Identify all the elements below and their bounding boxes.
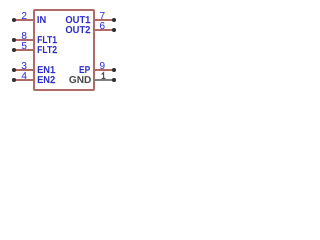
svg-text:FLT2: FLT2 [37, 45, 57, 56]
serif foot of 1 in FLT2 [53, 52, 57, 53]
serif foot of 1 in EN2 [51, 82, 55, 83]
serif foot of 1 in OUT1 [86, 22, 90, 23]
pin 1 GND wire [94, 79, 114, 81]
pin 5 endpoint dot [12, 48, 16, 52]
svg-text:OUT2: OUT2 [65, 25, 90, 36]
pin 6 OUT2 wire [94, 29, 114, 31]
svg-text:4: 4 [21, 71, 27, 82]
svg-text:IN: IN [37, 15, 46, 26]
pin 4 EN2 wire [14, 79, 34, 81]
serif foot of 1 in OUT2 [86, 32, 90, 33]
svg-text:EN2: EN2 [37, 75, 56, 86]
pin 5 FLT2 wire [14, 49, 34, 51]
svg-text:6: 6 [100, 21, 106, 32]
pin 6 endpoint dot [112, 28, 116, 32]
svg-text:GND: GND [69, 75, 91, 86]
svg-text:2: 2 [21, 11, 27, 22]
pin 9 endpoint dot [112, 68, 116, 72]
pin 9 EP wire [94, 69, 114, 71]
pin 8 FLT1 wire [14, 39, 34, 41]
pin 8 endpoint dot [12, 38, 16, 42]
pin 1 endpoint dot [112, 78, 116, 82]
IC body U1 [34, 10, 94, 90]
pin 2 endpoint dot [12, 18, 16, 22]
pin 3 endpoint dot [12, 68, 16, 72]
pin 2 IN wire [14, 19, 34, 21]
serif foot of 1 in FLT1 [53, 42, 57, 43]
svg-text:5: 5 [21, 41, 27, 52]
pin 3 EN1 wire [14, 69, 34, 71]
pin 4 endpoint dot [12, 78, 16, 82]
serif foot of 1 in EN1 [51, 72, 55, 73]
pin 7 OUT1 wire [94, 19, 114, 21]
pin 7 endpoint dot [112, 18, 116, 22]
svg-text:9: 9 [100, 61, 106, 72]
pin number 1 [102, 73, 106, 79]
